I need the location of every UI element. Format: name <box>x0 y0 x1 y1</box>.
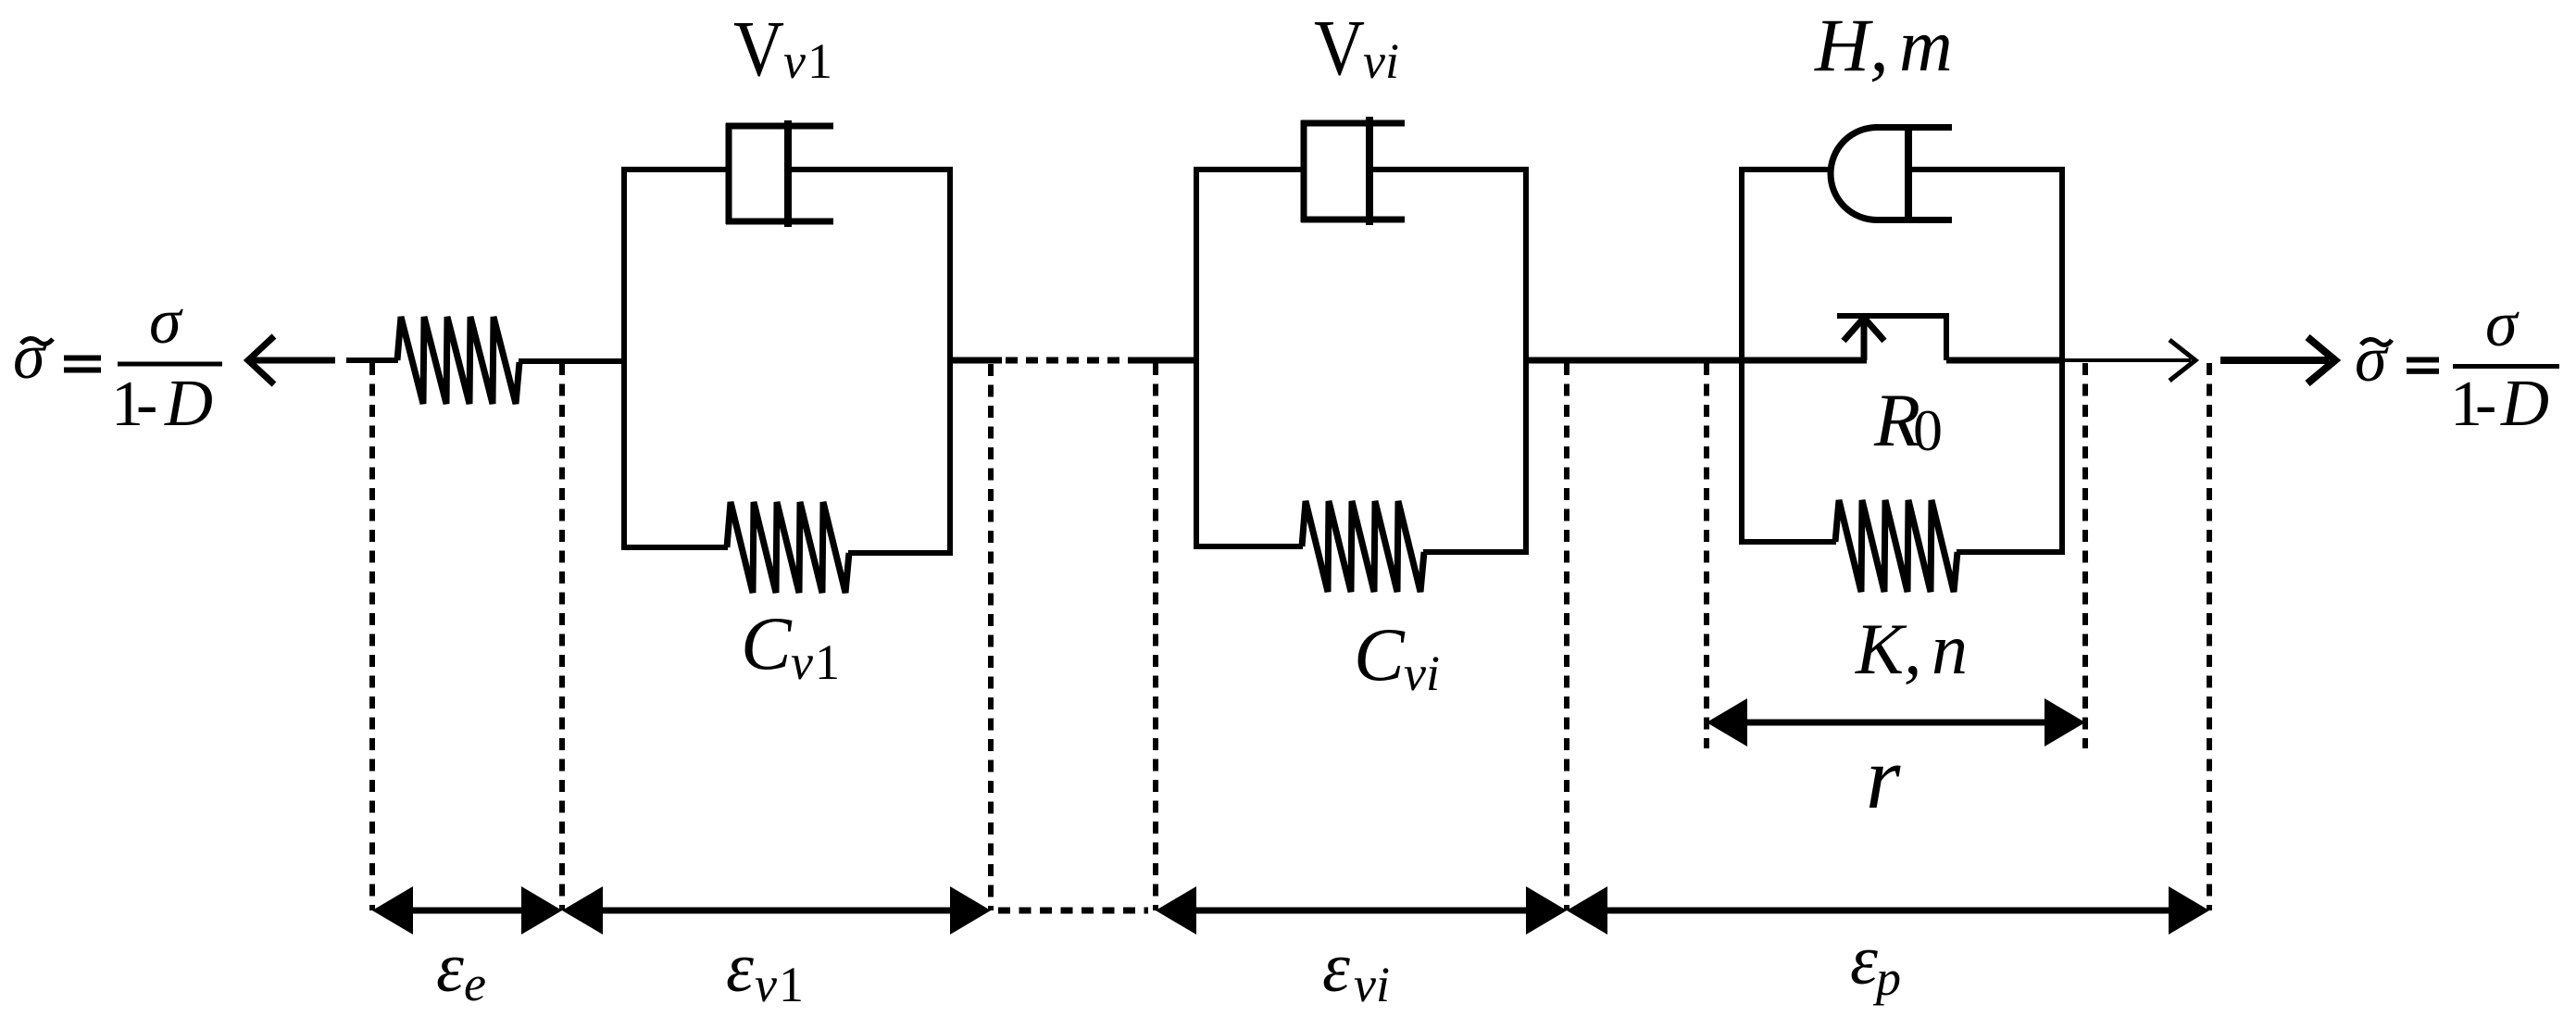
label epsilon_e <box>436 929 486 1011</box>
svg-text:V: V <box>1314 3 1365 92</box>
wire: output lead with small arrow <box>2062 340 2195 381</box>
node: left applied stress label sigma_tilde = sigma/(1-D) <box>13 286 222 440</box>
svg-text:-: - <box>2475 369 2496 440</box>
node: dashed guide line (r-arrow right guide) <box>2082 363 2088 748</box>
svg-text:0: 0 <box>1913 397 1943 463</box>
svg-text:1: 1 <box>815 634 840 690</box>
svg-text:-: - <box>136 369 157 440</box>
svg-text:vi: vi <box>1354 957 1390 1012</box>
label epsilon_p <box>1850 922 1901 1006</box>
label R_0 <box>1873 378 1943 463</box>
label C_vi <box>1354 612 1440 701</box>
label H, m <box>1814 3 1953 87</box>
node: dashed guide line (epsilon_e left guide) <box>369 363 375 910</box>
hardening friction element H,m (rounded cylinder and piston) <box>1831 126 1952 222</box>
node: Kelvin unit 1 right vertical wire <box>947 167 953 556</box>
wire: hardening element rod to right vertical <box>1908 167 2062 172</box>
wire: Kelvin 2 bottom-right edge <box>1423 549 1526 555</box>
dimension arrow epsilon_v1 <box>562 886 991 935</box>
svg-text:σ: σ <box>2355 324 2389 395</box>
spring K, n <box>1835 500 1957 592</box>
wire: Kelvin 1 output stub <box>950 358 1002 364</box>
wire: slider to right vertical <box>1946 358 2062 364</box>
wire: Kelvin 2 bottom-left edge <box>1196 544 1303 549</box>
dashpot V_vi (cylinder and piston) <box>1301 117 1405 225</box>
node: Kelvin unit 1 left vertical wire <box>621 167 627 550</box>
wire: spring to Kelvin unit 1 <box>519 358 626 364</box>
spring E (elastic, on main axis) <box>397 317 519 404</box>
svg-text:C: C <box>741 601 793 685</box>
wire: dashpot V_v1 rod to right vertical <box>788 167 950 172</box>
dimension arrow r (between inner dashed guides) <box>1707 698 2085 747</box>
svg-text:V: V <box>733 4 784 93</box>
node: dashed guide line (epsilon_p right guide) <box>2207 363 2212 910</box>
node: dashed guide line (epsilon_vi left guide) <box>1153 363 1158 910</box>
svg-text:m: m <box>1899 6 1953 87</box>
wire: Kelvin 1 bottom-right edge <box>848 550 950 556</box>
label epsilon_v1 <box>726 929 804 1012</box>
svg-text:ε: ε <box>436 929 464 1007</box>
svg-text:v: v <box>783 33 806 89</box>
label K, n <box>1855 609 1968 689</box>
svg-text:ε: ε <box>726 929 754 1007</box>
wire: dashpot V_vi rod to right vertical <box>1369 167 1526 172</box>
svg-text:σ: σ <box>149 286 183 358</box>
svg-text:D: D <box>164 366 213 440</box>
wire: Kelvin 2 input stub <box>1139 358 1198 364</box>
spring C_vi <box>1302 501 1424 592</box>
label V_v1 <box>733 4 832 93</box>
svg-text:p: p <box>1872 950 1901 1006</box>
wire: Kelvin 2 to plastic unit <box>1526 358 1867 364</box>
svg-text:vi: vi <box>1404 646 1440 701</box>
svg-text:σ: σ <box>2485 289 2520 360</box>
wire: plastic unit bottom-right edge <box>1957 549 2062 555</box>
svg-text:ε: ε <box>1322 929 1350 1007</box>
wire: left lead-in segment <box>346 358 398 363</box>
label epsilon_vi <box>1322 929 1390 1012</box>
node: dashed guide line (epsilon_v1 right guide) <box>988 364 994 910</box>
node: Kelvin unit 2 left vertical wire <box>1194 167 1199 549</box>
label C_v1 <box>741 601 840 690</box>
spring C_v1 <box>727 502 849 593</box>
dimension arrow epsilon_e <box>372 886 562 935</box>
svg-text:D: D <box>2500 366 2549 440</box>
node: right applied stress label sigma_tilde = sigma/(1-D) <box>2355 289 2559 440</box>
svg-text:vi: vi <box>1363 33 1399 89</box>
node: dashed guide line (r-arrow left guide) <box>1704 363 1709 748</box>
wire: Kelvin 1 top edge to dashpot <box>624 167 732 172</box>
wire: plastic unit bottom-left edge <box>1742 539 1836 545</box>
wire: Kelvin 1 bottom-left edge <box>624 545 728 550</box>
dimension arrow epsilon_vi <box>1156 886 1567 935</box>
svg-text:σ: σ <box>13 321 47 393</box>
wire: dotted gap in dimension line <box>998 908 1148 914</box>
label V_vi <box>1314 3 1399 92</box>
svg-text:e: e <box>464 956 486 1011</box>
node: plastic unit left vertical wire <box>1739 167 1744 545</box>
svg-text:ε: ε <box>1850 922 1878 999</box>
wire: Kelvin 2 top edge to dashpot <box>1196 167 1307 172</box>
svg-text:C: C <box>1354 612 1406 696</box>
wire: dotted continuation between Kelvin units <box>1006 358 1139 364</box>
node: plastic unit right vertical wire <box>2059 167 2065 555</box>
node: dashed guide line (epsilon_e/epsilon_v1 guide) <box>559 363 565 910</box>
svg-text:H,: H, <box>1814 3 1889 87</box>
svg-text:1: 1 <box>779 957 804 1012</box>
dimension arrow epsilon_p <box>1567 886 2209 935</box>
slider R0 (yield step with arrow) <box>1837 313 1946 360</box>
svg-text:K,: K, <box>1855 609 1922 689</box>
svg-text:1: 1 <box>807 33 832 89</box>
svg-text:n: n <box>1932 609 1968 689</box>
wire: left stress arrow (points left) <box>248 336 335 384</box>
wire: plastic unit top edge to hardening element <box>1742 167 1833 172</box>
wire: right stress arrow (points right) <box>2220 337 2335 383</box>
svg-text:r: r <box>1866 728 1901 827</box>
svg-text:v: v <box>791 634 813 690</box>
node: Kelvin unit 2 right vertical wire <box>1523 167 1529 555</box>
node: dashed guide line (epsilon_vi/epsilon_p guide) <box>1564 363 1569 910</box>
svg-text:v: v <box>755 957 777 1012</box>
dashpot V_v1 (cylinder and piston) <box>726 120 833 227</box>
